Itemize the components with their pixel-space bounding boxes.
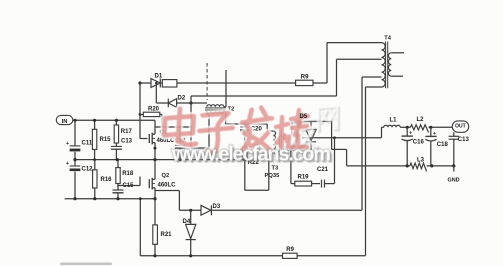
- svg-text:L1: L1: [390, 118, 398, 124]
- svg-text:+: +: [66, 161, 69, 167]
- svg-text:+: +: [66, 141, 69, 147]
- junction dots rail1: [73, 119, 118, 122]
- wire W2 feed: [302, 136, 382, 139]
- capacitor C11: [66, 140, 93, 151]
- transformer T4: [382, 36, 405, 89]
- capacitor C13 output: [449, 132, 470, 166]
- svg-text:D3: D3: [213, 204, 221, 210]
- watermark elecfans url: [171, 144, 333, 168]
- diode D1: [138, 74, 162, 88]
- resistor snubber box after D1: [160, 80, 296, 87]
- resistor R18: [116, 160, 134, 187]
- node OUT terminal: [452, 121, 468, 132]
- svg-text:C11: C11: [82, 140, 93, 146]
- wire T2 bottom link: [191, 114, 209, 148]
- wire drain tap to C19: [155, 126, 192, 129]
- transistor Q1: [149, 120, 175, 159]
- wire long vertical 1: [362, 77, 382, 210]
- junction dots output row: [406, 126, 433, 129]
- diode D2: [155, 82, 207, 108]
- svg-text:R9: R9: [301, 75, 309, 81]
- svg-text:OUT: OUT: [455, 124, 466, 130]
- wire drain node vertical x191: [190, 96, 192, 148]
- resistor R9 bottom: [283, 247, 298, 258]
- junction dots return row: [406, 164, 456, 167]
- svg-text:R19: R19: [298, 175, 310, 181]
- node IN input terminal: [56, 115, 75, 125]
- transformer T3 PQ35: [265, 121, 312, 190]
- ground GND: [448, 166, 460, 184]
- svg-text:R20: R20: [148, 107, 160, 113]
- wire C21 vertical: [334, 138, 336, 184]
- footer smudge text: [60, 263, 112, 266]
- capacitor C18: [425, 127, 448, 166]
- inductor L1: [384, 118, 400, 128]
- resistor R16: [93, 160, 113, 199]
- svg-text:C18: C18: [437, 142, 449, 148]
- wire W1 top: [292, 120, 332, 122]
- resistor R20: [139, 107, 162, 128]
- junction dots rail2: [73, 158, 181, 161]
- wire Q2 source to bottom: [154, 199, 156, 256]
- svg-text:D2: D2: [178, 96, 186, 102]
- wire T2 to C20 row: [226, 123, 268, 126]
- wire gate vertical Q1: [140, 83, 148, 139]
- wire left drop to bottom rail: [139, 199, 141, 256]
- wire gate tap Q2: [118, 177, 140, 186]
- wire long vertical 2: [366, 87, 382, 256]
- svg-text:R16: R16: [101, 177, 113, 183]
- resistor R22: [243, 147, 260, 190]
- diode D3: [201, 204, 362, 215]
- watermark chinese characters: [164, 106, 338, 152]
- wire output row: [382, 126, 453, 128]
- wire rail3 lower-left rail: [65, 198, 155, 200]
- resistor R17: [114, 120, 132, 146]
- svg-text:IN: IN: [62, 119, 68, 125]
- junction dots rail3: [73, 197, 119, 200]
- svg-text:PQ35: PQ35: [265, 173, 281, 179]
- svg-text:Q2: Q2: [162, 173, 170, 179]
- inductor L3: [410, 157, 427, 171]
- svg-text:R18: R18: [122, 171, 134, 177]
- capacitor C12: [66, 161, 93, 172]
- capacitor C19: [175, 127, 187, 160]
- junction dots bottom: [139, 197, 157, 257]
- wire A to T4 pin1: [313, 43, 382, 83]
- wire input vertical: [74, 120, 76, 198]
- wire feed up to L1 row: [381, 127, 383, 138]
- wire bottom rail: [140, 255, 365, 257]
- svg-text:www.elecfans.com: www.elecfans.com: [171, 144, 331, 166]
- capacitor C21: [317, 167, 335, 188]
- wire D3 branch: [155, 191, 201, 211]
- wire return bend: [332, 121, 347, 165]
- resistor R9 top: [296, 75, 313, 86]
- svg-text:C16: C16: [413, 140, 425, 146]
- resistor R15: [92, 120, 111, 159]
- resistor R21: [153, 225, 172, 244]
- svg-text:L2: L2: [417, 117, 425, 123]
- diode D5: [300, 114, 317, 151]
- wire mid rail under T3: [245, 189, 269, 191]
- svg-text:D5: D5: [300, 114, 308, 120]
- capacitor C20: [240, 124, 262, 147]
- capacitor C16: [402, 127, 425, 166]
- transformer T2: [205, 70, 234, 124]
- capacitor C15 gate Q2: [113, 183, 135, 199]
- transistor Q2: [149, 160, 176, 199]
- diode D4: [183, 209, 196, 258]
- wire B to T4 pin2: [191, 59, 382, 96]
- svg-text:C21: C21: [317, 167, 329, 173]
- shield dash line: [206, 63, 208, 100]
- wire rail2 middle rail: [75, 159, 245, 161]
- label D5 overlay: [300, 114, 308, 120]
- svg-text:R21: R21: [161, 232, 173, 238]
- svg-text:C13: C13: [458, 137, 470, 143]
- svg-text:R17: R17: [121, 129, 133, 135]
- svg-text:L3: L3: [417, 157, 425, 163]
- wire return row: [347, 165, 454, 167]
- svg-text:C13: C13: [121, 138, 133, 144]
- svg-text:R15: R15: [100, 137, 112, 143]
- svg-text:C12: C12: [82, 166, 94, 172]
- resistor R19: [295, 175, 320, 187]
- svg-text:T4: T4: [384, 36, 392, 42]
- svg-text:+: +: [433, 131, 436, 137]
- svg-text:R9: R9: [286, 247, 294, 253]
- svg-text:D1: D1: [155, 74, 163, 80]
- wire R19 row: [291, 150, 295, 183]
- svg-text:GND: GND: [448, 178, 460, 184]
- svg-text:460LC: 460LC: [158, 183, 177, 189]
- capacitor C13 gate Q1: [111, 138, 133, 159]
- svg-text:+: +: [409, 131, 412, 137]
- svg-text:D4: D4: [183, 219, 191, 225]
- inductor L2: [411, 117, 429, 132]
- wire rail1 top input rail: [75, 119, 155, 121]
